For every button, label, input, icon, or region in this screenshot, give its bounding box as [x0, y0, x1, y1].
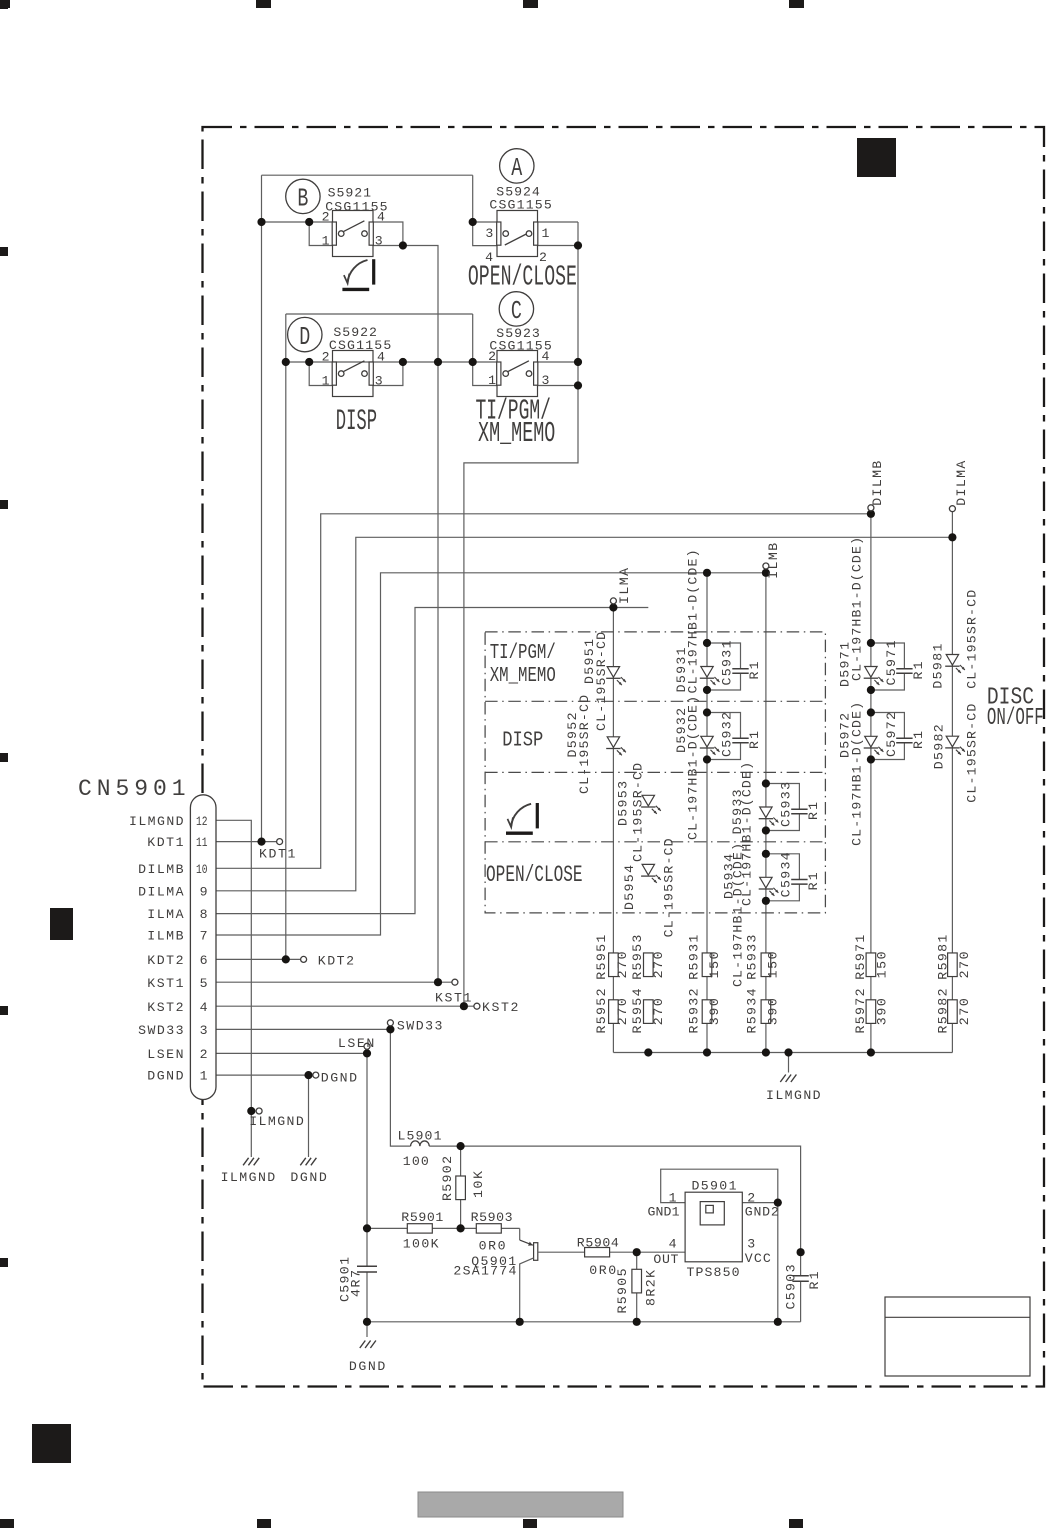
svg-text:2SA1774: 2SA1774	[453, 1264, 516, 1279]
svg-text:DGND: DGND	[147, 1069, 183, 1084]
svg-text:DILMA: DILMA	[138, 884, 184, 899]
svg-text:CL-195SR-CD: CL-195SR-CD	[965, 704, 980, 803]
svg-text:D5953: D5953	[615, 781, 630, 826]
svg-text:R1: R1	[806, 872, 821, 890]
svg-text:L5901: L5901	[398, 1128, 442, 1143]
svg-text:2: 2	[322, 210, 330, 225]
svg-text:3: 3	[747, 1237, 755, 1252]
svg-text:3: 3	[200, 1023, 208, 1038]
svg-text:1: 1	[488, 373, 496, 388]
svg-text:2: 2	[322, 350, 330, 365]
svg-text:9: 9	[200, 884, 208, 899]
svg-text:OPEN/CLOSE: OPEN/CLOSE	[486, 862, 583, 889]
svg-text:4: 4	[200, 1000, 208, 1015]
svg-text:DISP: DISP	[502, 729, 543, 753]
svg-text:CL-195SR-CD: CL-195SR-CD	[577, 695, 592, 794]
svg-text:R5905: R5905	[615, 1268, 630, 1313]
svg-text:C: C	[511, 296, 522, 326]
svg-text:SWD33: SWD33	[138, 1023, 184, 1038]
svg-text:OPEN/CLOSE: OPEN/CLOSE	[468, 261, 577, 294]
svg-text:100K: 100K	[403, 1236, 439, 1251]
svg-text:R1: R1	[911, 731, 926, 749]
svg-text:KST1: KST1	[435, 991, 471, 1006]
svg-text:ILMB: ILMB	[147, 929, 183, 944]
svg-text:ILMGND: ILMGND	[221, 1170, 276, 1185]
svg-text:KST2: KST2	[147, 1000, 183, 1015]
svg-text:D5901: D5901	[692, 1179, 737, 1194]
svg-text:R5982: R5982	[935, 989, 950, 1034]
svg-text:CL-197HB1-D(CDE): CL-197HB1-D(CDE)	[850, 537, 865, 681]
svg-text:SWD33: SWD33	[397, 1019, 443, 1034]
svg-text:OUT: OUT	[653, 1252, 678, 1267]
svg-text:DGND: DGND	[290, 1170, 326, 1185]
svg-text:R5903: R5903	[471, 1210, 513, 1225]
svg-text:B: B	[297, 184, 308, 214]
svg-text:C5933: C5933	[778, 782, 793, 827]
svg-text:150: 150	[765, 951, 780, 978]
svg-text:KDT2: KDT2	[147, 953, 183, 968]
svg-text:TPS850: TPS850	[687, 1265, 740, 1280]
svg-text:CL-197HB1-D(CDE): CL-197HB1-D(CDE)	[685, 696, 700, 840]
svg-text:D5954: D5954	[622, 865, 637, 910]
svg-text:270: 270	[651, 998, 666, 1025]
svg-text:ON/OFF: ON/OFF	[987, 705, 1044, 732]
svg-text:D5981: D5981	[930, 644, 945, 689]
svg-text:R1: R1	[747, 731, 762, 749]
svg-text:R5932: R5932	[686, 989, 701, 1034]
svg-text:R1: R1	[911, 661, 926, 679]
svg-text:3: 3	[542, 373, 550, 388]
svg-text:R5953: R5953	[630, 935, 645, 980]
svg-text:CL-197HB1-D(CDE): CL-197HB1-D(CDE)	[730, 843, 745, 987]
svg-text:ILMGND: ILMGND	[766, 1088, 821, 1103]
svg-text:KDT1: KDT1	[147, 835, 183, 850]
svg-text:100: 100	[403, 1154, 429, 1169]
svg-text:D5982: D5982	[931, 724, 946, 769]
svg-text:GND2: GND2	[745, 1205, 779, 1220]
svg-text:150: 150	[707, 951, 722, 978]
svg-text:R5904: R5904	[577, 1235, 619, 1250]
svg-text:ILMGND: ILMGND	[249, 1114, 304, 1129]
svg-text:TI/PGM/: TI/PGM/	[490, 642, 556, 665]
svg-text:LSEN: LSEN	[338, 1036, 374, 1051]
svg-text:CL-195SR-CD: CL-195SR-CD	[662, 838, 677, 937]
svg-text:6: 6	[200, 953, 208, 968]
svg-text:R5952: R5952	[594, 989, 609, 1034]
svg-text:4: 4	[669, 1237, 677, 1252]
svg-text:R1: R1	[747, 661, 762, 679]
svg-text:1: 1	[322, 373, 330, 388]
svg-text:4: 4	[542, 349, 550, 364]
svg-text:1: 1	[200, 1069, 208, 1084]
svg-text:R5902: R5902	[440, 1156, 455, 1201]
svg-text:D: D	[299, 322, 310, 352]
svg-text:KST2: KST2	[482, 1000, 518, 1015]
svg-text:CSG1155: CSG1155	[489, 198, 551, 213]
svg-text:C5972: C5972	[884, 712, 899, 757]
svg-text:R5931: R5931	[686, 935, 701, 980]
svg-text:270: 270	[615, 951, 630, 978]
svg-text:R5954: R5954	[630, 988, 645, 1033]
svg-text:DILMB: DILMB	[138, 862, 184, 877]
svg-text:KST1: KST1	[147, 976, 183, 991]
svg-text:270: 270	[957, 951, 972, 978]
svg-text:R5971: R5971	[853, 935, 868, 980]
svg-text:R5933: R5933	[744, 935, 759, 980]
svg-text:4: 4	[377, 210, 385, 225]
svg-text:2: 2	[488, 349, 496, 364]
svg-text:ILMA: ILMA	[147, 907, 183, 922]
svg-text:DGND: DGND	[321, 1071, 357, 1086]
svg-text:390: 390	[874, 998, 889, 1025]
svg-text:5: 5	[200, 976, 208, 991]
svg-text:10K: 10K	[471, 1171, 486, 1198]
svg-text:270: 270	[957, 998, 972, 1025]
svg-text:XM_MEMO: XM_MEMO	[490, 665, 556, 688]
svg-text:A: A	[511, 153, 522, 183]
svg-text:CN5901: CN5901	[78, 776, 186, 802]
svg-text:2: 2	[747, 1191, 755, 1206]
svg-text:2: 2	[200, 1047, 208, 1062]
svg-text:R5981: R5981	[935, 935, 950, 980]
svg-text:C5971: C5971	[884, 640, 899, 685]
svg-text:ILMB: ILMB	[766, 543, 781, 579]
svg-text:C5934: C5934	[778, 852, 793, 897]
svg-text:270: 270	[651, 951, 666, 978]
svg-text:VCC: VCC	[745, 1251, 771, 1266]
svg-text:0R0: 0R0	[479, 1239, 506, 1254]
svg-text:390: 390	[707, 998, 722, 1025]
svg-text:4: 4	[377, 350, 385, 365]
svg-text:C5903: C5903	[783, 1264, 798, 1309]
svg-text:R5951: R5951	[594, 935, 609, 980]
svg-text:XM_MEMO: XM_MEMO	[478, 417, 555, 450]
svg-text:KDT2: KDT2	[318, 954, 354, 969]
svg-text:R5901: R5901	[401, 1210, 443, 1225]
svg-text:270: 270	[615, 998, 630, 1025]
svg-text:10: 10	[196, 862, 208, 877]
svg-text:CL-197HB1-D(CDE): CL-197HB1-D(CDE)	[850, 702, 865, 846]
svg-text:11: 11	[196, 835, 208, 850]
svg-text:KDT1: KDT1	[259, 847, 295, 862]
svg-text:4R7: 4R7	[348, 1270, 363, 1297]
svg-text:3: 3	[485, 226, 493, 241]
svg-text:390: 390	[765, 998, 780, 1025]
svg-text:R1: R1	[807, 1271, 822, 1289]
svg-text:3: 3	[375, 373, 383, 388]
svg-text:CL-195SR-CD: CL-195SR-CD	[594, 632, 609, 731]
svg-text:R1: R1	[806, 802, 821, 820]
svg-text:DILMA: DILMA	[954, 461, 969, 506]
svg-text:DISP: DISP	[336, 405, 377, 439]
svg-text:ILMGND: ILMGND	[129, 814, 184, 829]
svg-text:1: 1	[542, 226, 550, 241]
svg-text:C5932: C5932	[720, 712, 735, 757]
svg-text:S5921: S5921	[328, 185, 372, 200]
svg-text:CL-195SR-CD: CL-195SR-CD	[630, 763, 645, 862]
svg-text:8: 8	[200, 907, 208, 922]
svg-text:ILMA: ILMA	[617, 568, 632, 604]
svg-text:LSEN: LSEN	[147, 1047, 183, 1062]
svg-text:12: 12	[196, 814, 208, 829]
svg-text:GND1: GND1	[648, 1205, 680, 1220]
svg-text:CL-195SR-CD: CL-195SR-CD	[965, 590, 980, 689]
svg-text:3: 3	[375, 233, 383, 248]
svg-text:CL-197HB1-D(CDE): CL-197HB1-D(CDE)	[685, 550, 700, 694]
svg-text:7: 7	[200, 929, 208, 944]
svg-text:R5934: R5934	[744, 988, 759, 1033]
svg-text:1: 1	[322, 233, 330, 248]
svg-text:0R0: 0R0	[589, 1263, 616, 1278]
svg-text:DILMB: DILMB	[870, 461, 885, 506]
svg-text:R5972: R5972	[853, 989, 868, 1034]
svg-text:C5931: C5931	[720, 640, 735, 685]
svg-text:150: 150	[874, 951, 889, 978]
svg-text:1: 1	[669, 1191, 677, 1206]
svg-text:8R2K: 8R2K	[643, 1270, 658, 1306]
svg-text:DGND: DGND	[349, 1359, 385, 1374]
